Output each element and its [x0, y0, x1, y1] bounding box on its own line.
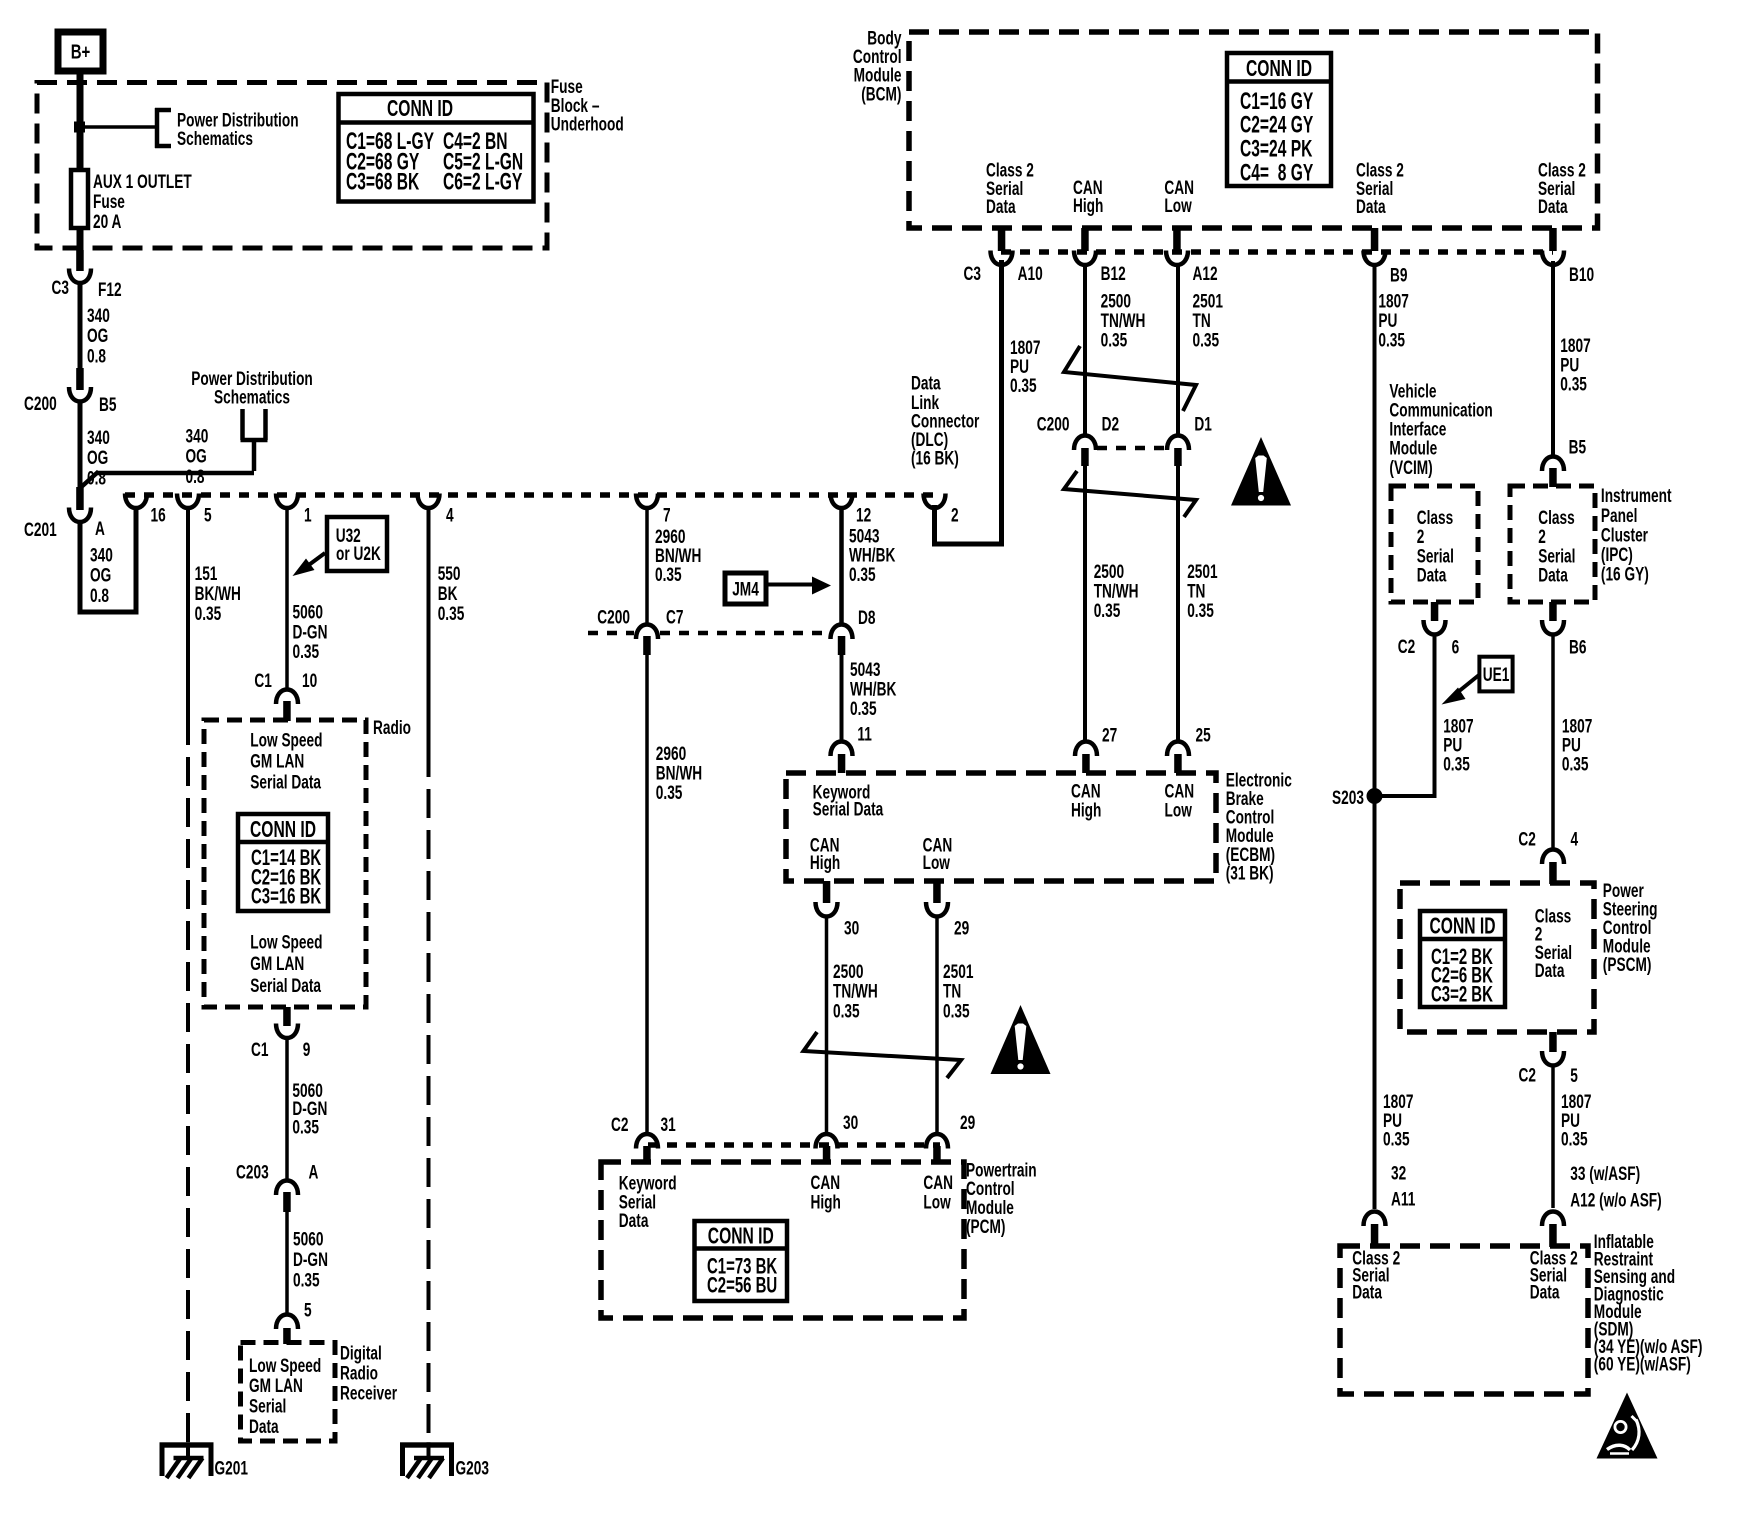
svg-text:Radio: Radio	[340, 1362, 378, 1384]
svg-text:Low: Low	[923, 1191, 950, 1213]
svg-text:5060: 5060	[293, 1228, 323, 1250]
svg-text:B+: B+	[71, 41, 91, 64]
svg-text:0.35: 0.35	[1187, 600, 1214, 622]
svg-text:30: 30	[843, 1112, 858, 1134]
svg-text:BN/WH: BN/WH	[656, 762, 702, 784]
svg-text:Receiver: Receiver	[340, 1382, 397, 1404]
wire 1807 PU (DLC 2 to BCM A10)	[935, 260, 1041, 544]
svg-text:Serial Data: Serial Data	[250, 771, 321, 793]
svg-text:Data: Data	[1356, 196, 1386, 218]
svg-text:A12 (w/o ASF): A12 (w/o ASF)	[1570, 1189, 1661, 1211]
DLC pin 2 connector	[924, 494, 959, 526]
BCM pin A12 connector	[1166, 228, 1218, 284]
wire 2500 TN/WH (B12 to D2)	[1085, 264, 1145, 436]
IPC bottom pin connector	[1542, 602, 1586, 658]
label Electronic Brake Control Module (ECBM) (31 BK)	[1226, 769, 1292, 884]
svg-text:C3: C3	[964, 263, 981, 285]
svg-text:0.35: 0.35	[438, 603, 465, 625]
svg-text:31: 31	[661, 1114, 676, 1136]
svg-text:C2: C2	[1519, 1064, 1536, 1086]
wire 550 BK (DLC 4 to G203)	[429, 506, 465, 748]
svg-text:Data: Data	[986, 196, 1016, 218]
svg-text:0.35: 0.35	[850, 698, 877, 720]
IPC dashed box	[1510, 486, 1595, 602]
svg-text:Serial Data: Serial Data	[813, 798, 884, 820]
svg-text:2960: 2960	[656, 743, 686, 765]
svg-text:C200: C200	[24, 393, 57, 415]
ECBM pin 29 connector (bottom)	[926, 881, 969, 939]
radio internal label Low Speed GM LAN Serial Data (bottom)	[250, 931, 322, 996]
svg-text:25: 25	[1196, 724, 1211, 746]
wire 2501 TN (D1 to ECBM 25)	[1178, 466, 1218, 742]
svg-text:C3=24 PK: C3=24 PK	[1240, 136, 1313, 162]
svg-text:D2: D2	[1102, 413, 1119, 435]
svg-text:2500: 2500	[833, 961, 863, 983]
svg-text:Radio: Radio	[373, 717, 411, 739]
wire 550 BK dashed segment to G203	[427, 748, 431, 1443]
C200 dashed connector line at D2/D1	[1097, 446, 1165, 451]
SDM internal label Class 2 Serial Data (right)	[1530, 1247, 1578, 1303]
PCM pin 29 connector	[926, 1112, 975, 1164]
ECBM internal label CAN High (pin 30)	[810, 834, 840, 874]
svg-text:4: 4	[1571, 828, 1579, 850]
ECBM internal label Keyword Serial Data	[813, 781, 884, 820]
svg-text:0.35: 0.35	[1561, 1128, 1588, 1150]
svg-text:or U2K: or U2K	[336, 543, 381, 565]
wire 2501 TN (A12 to D1)	[1178, 264, 1223, 436]
svg-text:C6=2 L-GY: C6=2 L-GY	[443, 169, 523, 195]
connector C200 pin D8	[831, 607, 876, 655]
svg-text:4: 4	[446, 504, 454, 526]
wire 2960 BN/WH (C7 to PCM 31)	[647, 655, 702, 1135]
CONN ID table (fuse block)	[339, 94, 534, 202]
svg-text:340: 340	[186, 425, 209, 447]
ground G203	[400, 1442, 489, 1479]
svg-text:0.35: 0.35	[849, 564, 876, 586]
wire 5043 WH/BK (DLC 12 to C200 D8)	[842, 507, 896, 625]
svg-text:6: 6	[1452, 636, 1460, 658]
svg-text:0.35: 0.35	[1443, 753, 1470, 775]
CONN ID table (PCM)	[695, 1221, 788, 1301]
connector C3 pin F12	[52, 250, 122, 300]
svg-text:Data: Data	[1352, 1281, 1382, 1303]
label Vehicle Communication Interface Module (VCIM)	[1389, 380, 1492, 478]
svg-text:Data: Data	[1538, 564, 1568, 586]
svg-text:9: 9	[303, 1039, 311, 1061]
splice S203	[1332, 787, 1382, 809]
svg-text:A12: A12	[1193, 263, 1218, 285]
svg-text:GM LAN: GM LAN	[249, 1375, 303, 1397]
svg-text:0.35: 0.35	[1101, 329, 1128, 351]
svg-text:C3=68 BK: C3=68 BK	[346, 169, 420, 195]
SDM pin 33/A12 connector	[1542, 1212, 1564, 1248]
label Digital Radio Receiver	[340, 1342, 397, 1404]
svg-text:B9: B9	[1390, 264, 1407, 286]
svg-text:Data: Data	[1417, 564, 1447, 586]
wire 340 OG 0.8 (bracket to C201)	[79, 425, 254, 489]
wire 2500 TN/WH (D2 to ECBM 27)	[1085, 466, 1139, 742]
svg-text:D8: D8	[858, 607, 875, 629]
svg-text:OG: OG	[186, 445, 207, 467]
svg-text:0.35: 0.35	[293, 1269, 320, 1291]
svg-text:CONN ID: CONN ID	[250, 817, 316, 843]
svg-text:CONN ID: CONN ID	[387, 96, 453, 122]
Radio module dashed box	[204, 717, 411, 1007]
svg-text:7: 7	[663, 504, 671, 526]
svg-text:G203: G203	[456, 1457, 489, 1479]
svg-text:D1: D1	[1194, 413, 1211, 435]
svg-text:29: 29	[960, 1112, 975, 1134]
PCM harness dotted line	[648, 1142, 940, 1148]
BCM pin B10 connector	[1542, 228, 1594, 285]
wire 340 OG 0.8 (C3 to C200)	[80, 282, 110, 370]
ECBM internal label CAN Low (pin 29)	[923, 834, 953, 874]
svg-text:C3: C3	[52, 277, 69, 299]
off-page bracket 2 Power Distribution Schematics	[191, 368, 313, 440]
svg-text:OG: OG	[90, 564, 111, 586]
warning triangle (CAN bus note)	[1231, 437, 1291, 506]
svg-text:A10: A10	[1018, 263, 1043, 285]
svg-text:0.35: 0.35	[1562, 753, 1589, 775]
Inflatable Restraint SDM dashed box	[1340, 1246, 1588, 1394]
svg-text:32: 32	[1391, 1162, 1406, 1184]
svg-text:Low Speed: Low Speed	[249, 1355, 321, 1377]
svg-text:BK: BK	[438, 583, 458, 605]
svg-text:27: 27	[1102, 724, 1117, 746]
svg-text:Schematics: Schematics	[214, 386, 290, 408]
svg-text:5: 5	[1570, 1065, 1578, 1087]
svg-text:CONN ID: CONN ID	[708, 1223, 774, 1249]
BCM pin label Class 2 Serial Data (B9)	[1356, 159, 1404, 217]
svg-text:0.35: 0.35	[1378, 329, 1405, 351]
svg-text:0.8: 0.8	[186, 466, 205, 488]
BCM pin label CAN High	[1073, 177, 1103, 217]
svg-text:0.35: 0.35	[833, 1000, 860, 1022]
svg-text:0.35: 0.35	[656, 782, 683, 804]
PCM internal label Keyword Serial Data	[619, 1172, 677, 1231]
wire 5060 D-GN (C203 to digital radio receiver)	[287, 1211, 328, 1321]
svg-text:B10: B10	[1569, 264, 1594, 286]
svg-text:30: 30	[844, 917, 859, 939]
connector C200 pin B5	[24, 368, 116, 415]
svg-text:UE1: UE1	[1483, 664, 1510, 686]
svg-text:A: A	[95, 518, 105, 540]
svg-text:0.35: 0.35	[1383, 1128, 1410, 1150]
wire 5060 D-GN (radio to C203)	[287, 1037, 327, 1180]
svg-text:High: High	[810, 852, 840, 874]
connector C203 pin A	[236, 1161, 318, 1212]
CONN ID table (radio)	[238, 814, 328, 911]
DLC pin 16 connector	[125, 494, 166, 526]
wire 2501 TN (ECBM 29 to PCM 29)	[937, 915, 973, 1134]
PSCM pin C2 4 connector	[1542, 850, 1564, 885]
wire 1807 PU (VCIM C2-6 to S203)	[1380, 633, 1474, 796]
svg-text:Data: Data	[1538, 196, 1568, 218]
BCM harness dotted line	[1001, 249, 1553, 255]
svg-text:S203: S203	[1332, 787, 1364, 809]
svg-text:0.35: 0.35	[655, 564, 682, 586]
junction dot on B+ feed	[74, 122, 85, 133]
label Powertrain Control Module (PCM)	[966, 1159, 1037, 1237]
BCM pin label Class 2 Serial Data (A10)	[986, 159, 1034, 217]
svg-text:High: High	[811, 1191, 841, 1213]
wire 2960 BN/WH (DLC 7 to C200 C7)	[647, 507, 701, 625]
svg-text:Low: Low	[1165, 799, 1192, 821]
svg-text:CONN ID: CONN ID	[1246, 56, 1312, 82]
svg-text:0.35: 0.35	[1010, 375, 1037, 397]
svg-text:Low Speed: Low Speed	[250, 931, 322, 953]
ECBM pin 25 connector	[1167, 724, 1211, 773]
svg-text:5060: 5060	[293, 601, 323, 623]
svg-text:A: A	[309, 1161, 319, 1183]
IPC pin B5 connector	[1542, 457, 1564, 488]
wire label 1807 PU (B9 wire at SDM)	[1383, 1091, 1415, 1210]
svg-text:Serial Data: Serial Data	[250, 975, 321, 997]
svg-text:Digital: Digital	[340, 1342, 382, 1364]
svg-text:29: 29	[954, 917, 969, 939]
digital radio receiver connector pin 5	[276, 1315, 298, 1345]
svg-text:550: 550	[438, 563, 461, 585]
wire 1807 PU (IPC to PSCM C2-4)	[1518, 633, 1592, 850]
DLC pin 5 connector	[177, 494, 212, 526]
svg-text:Data: Data	[619, 1210, 649, 1232]
wire 1807 PU (PSCM to SDM)	[1553, 1064, 1662, 1211]
PCM internal label CAN High	[811, 1172, 841, 1213]
PSCM pin C2 5 connector (bottom)	[1519, 1032, 1578, 1086]
warning triangle (CAN bus note 2)	[991, 1005, 1051, 1074]
fuse block dashed box (Fuse Block - Underhood)	[37, 83, 547, 249]
svg-text:Data: Data	[1535, 960, 1565, 982]
svg-text:Low: Low	[1164, 195, 1191, 217]
svg-text:C7: C7	[666, 606, 683, 628]
svg-text:F12: F12	[98, 279, 122, 301]
svg-text:0.35: 0.35	[292, 1116, 319, 1138]
svg-text:0.35: 0.35	[1094, 600, 1121, 622]
svg-text:C2: C2	[1398, 636, 1415, 658]
ECBM internal label CAN Low (pin 25)	[1165, 780, 1195, 821]
svg-text:Serial: Serial	[249, 1395, 286, 1417]
twisted pair crossover 1	[1064, 346, 1196, 411]
wire B+ feed into fuse block	[77, 71, 84, 250]
wire 340 OG 0.8 (C200 to C201)	[80, 400, 110, 491]
svg-text:C200: C200	[597, 606, 630, 628]
svg-text:Schematics: Schematics	[177, 128, 253, 150]
svg-text:2: 2	[951, 504, 959, 526]
svg-text:0.35: 0.35	[1193, 329, 1220, 351]
svg-text:C203: C203	[236, 1161, 269, 1183]
wire 340 OG 0.8 (C201 to DLC pin 16)	[80, 508, 136, 612]
Body Control Module dashed box	[909, 32, 1598, 228]
wire 1807 PU (BCM B9 to SDM A11)	[1375, 264, 1409, 1209]
svg-text:JM4: JM4	[732, 578, 759, 600]
label Data Link Connector (DLC) (16 BK)	[911, 372, 980, 469]
BCM pin B12 connector	[1074, 228, 1126, 284]
twisted pair crossover 2	[1064, 471, 1196, 517]
svg-text:High: High	[1071, 799, 1101, 821]
connector C200 pin D2	[1037, 413, 1119, 466]
svg-text:OG: OG	[87, 447, 108, 469]
svg-text:151: 151	[195, 563, 218, 585]
svg-text:GM LAN: GM LAN	[250, 953, 304, 975]
svg-text:(VCIM): (VCIM)	[1389, 457, 1432, 479]
svg-text:Fuse: Fuse	[93, 191, 125, 213]
svg-text:B12: B12	[1101, 263, 1126, 285]
svg-text:Data: Data	[911, 372, 941, 394]
ECBM internal label CAN High (pin 27)	[1071, 780, 1101, 821]
ECBM pin 30 connector (bottom)	[816, 881, 860, 939]
VCIM pin C2 6 connector	[1398, 602, 1460, 658]
PCM pin 30 connector	[816, 1112, 859, 1164]
svg-text:0.35: 0.35	[1560, 373, 1587, 395]
SDM internal label Class 2 Serial Data (left)	[1352, 1247, 1400, 1303]
connector C201 pin A	[24, 487, 105, 540]
svg-text:B6: B6	[1569, 636, 1586, 658]
Power Steering Control Module dashed box	[1400, 883, 1594, 1032]
svg-text:TN/WH: TN/WH	[833, 980, 878, 1002]
svg-text:1: 1	[304, 504, 312, 526]
svg-text:0.35: 0.35	[293, 641, 320, 663]
svg-text:Underhood: Underhood	[551, 113, 624, 135]
wire 151 BK/WH dashed segment to G201	[186, 716, 190, 1443]
SRS warning triangle	[1597, 1393, 1658, 1459]
svg-text:D-GN: D-GN	[293, 1249, 328, 1271]
svg-text:(60 YE)(w/ASF): (60 YE)(w/ASF)	[1594, 1353, 1691, 1375]
BCM pin A10 (C3) connector	[964, 228, 1043, 284]
VCIM internal label Class 2 Serial Data	[1417, 507, 1454, 586]
svg-text:C1: C1	[251, 1039, 268, 1061]
wire 5043 WH/BK (D8 to ECBM 11)	[842, 652, 897, 745]
svg-text:D-GN: D-GN	[293, 621, 328, 643]
svg-text:Data: Data	[1530, 1281, 1560, 1303]
svg-text:(BCM): (BCM)	[861, 83, 901, 105]
off-page bracket Power Distribution Schematics	[155, 108, 299, 149]
svg-text:(16 GY): (16 GY)	[1601, 563, 1649, 585]
callout box U32 or U2K with arrow	[293, 517, 388, 576]
label Power Steering Control Module (PSCM)	[1603, 880, 1658, 976]
BCM pin B9 connector	[1364, 228, 1408, 286]
DLC harness dotted line	[125, 492, 941, 498]
ECBM pin 11 connector	[831, 742, 853, 774]
PCM pin 31 connector (C2)	[611, 1114, 676, 1164]
svg-text:340: 340	[87, 427, 110, 449]
DLC pin 7 connector	[636, 494, 671, 526]
svg-text:High: High	[1073, 195, 1103, 217]
callout box JM4 with arrow	[725, 573, 831, 604]
CONN ID table (PSCM)	[1420, 911, 1505, 1007]
svg-text:0.35: 0.35	[195, 603, 222, 625]
svg-text:5: 5	[304, 1299, 312, 1321]
DLC pin 4 connector	[418, 494, 455, 526]
VCIM dashed box	[1391, 486, 1478, 602]
C200 dashed connector line at C7/D8	[588, 631, 829, 636]
svg-text:340: 340	[87, 305, 110, 327]
svg-text:C4= 8 GY: C4= 8 GY	[1240, 160, 1314, 186]
svg-text:Data: Data	[249, 1416, 279, 1438]
SDM pin A11 connector	[1364, 1212, 1386, 1248]
svg-text:0.8: 0.8	[87, 345, 106, 367]
svg-text:0.35: 0.35	[943, 1000, 970, 1022]
svg-text:2501: 2501	[943, 961, 973, 983]
svg-text:12: 12	[856, 504, 871, 526]
svg-text:(PCM): (PCM)	[966, 1216, 1005, 1238]
svg-text:C1: C1	[254, 670, 271, 692]
DLC pin 1 connector	[276, 494, 312, 526]
svg-text:C2: C2	[1518, 828, 1535, 850]
svg-text:GM LAN: GM LAN	[250, 750, 304, 772]
svg-text:AUX 1 OUTLET: AUX 1 OUTLET	[93, 171, 192, 193]
svg-text:C201: C201	[24, 519, 57, 541]
IPC internal label Class 2 Serial Data	[1538, 507, 1575, 586]
svg-text:A11: A11	[1391, 1188, 1415, 1210]
wire 151 BK/WH (DLC 5 to G201)	[188, 506, 241, 716]
svg-text:OG: OG	[87, 325, 108, 347]
connector C200 pin C7	[597, 606, 683, 655]
radio internal label Low Speed GM LAN Serial Data (top)	[250, 729, 322, 793]
CONN ID table (BCM)	[1227, 53, 1331, 186]
svg-text:(16 BK): (16 BK)	[911, 447, 959, 469]
wire 2500 TN/WH (ECBM 30 to PCM 30)	[827, 915, 878, 1134]
wire 1807 PU (BCM B10 to IPC B5)	[1553, 261, 1591, 458]
ECBM pin 27 connector	[1075, 724, 1117, 773]
BCM pin label Class 2 Serial Data (B10)	[1538, 159, 1586, 217]
connector C200 pin D1	[1167, 413, 1212, 466]
svg-text:Low Speed: Low Speed	[250, 729, 322, 751]
svg-text:B5: B5	[99, 394, 116, 416]
label Fuse Block - Underhood	[551, 76, 624, 136]
DLC pin 12 connector	[831, 494, 872, 526]
label Inflatable Restraint Sensing and Diagnostic Module (SDM)	[1594, 1231, 1703, 1375]
svg-text:16: 16	[151, 504, 166, 526]
svg-text:33 (w/ASF): 33 (w/ASF)	[1570, 1163, 1640, 1185]
svg-text:C3=2 BK: C3=2 BK	[1431, 982, 1493, 1007]
PSCM internal label Class 2 Serial Data	[1535, 905, 1572, 981]
callout box UE1 with arrow	[1442, 657, 1513, 705]
label Instrument Panel Cluster (IPC) (16 GY)	[1601, 485, 1672, 585]
svg-text:(PSCM): (PSCM)	[1603, 954, 1652, 976]
svg-text:C1=16 GY: C1=16 GY	[1240, 89, 1314, 115]
Digital Radio Receiver dashed box	[241, 1343, 336, 1442]
svg-text:Low: Low	[923, 852, 950, 874]
radio connector C1 pin 10	[254, 670, 317, 721]
svg-text:20 A: 20 A	[93, 211, 121, 233]
svg-text:0.8: 0.8	[90, 585, 109, 607]
svg-text:TN: TN	[943, 980, 961, 1002]
svg-text:B5: B5	[1569, 436, 1586, 458]
label Body Control Module (BCM)	[853, 27, 902, 105]
battery positive terminal B+	[58, 32, 103, 71]
svg-text:5: 5	[204, 504, 212, 526]
svg-text:C2: C2	[611, 1114, 628, 1136]
BCM pin label CAN Low	[1164, 177, 1194, 217]
svg-text:C200: C200	[1037, 413, 1070, 435]
svg-text:11: 11	[857, 723, 871, 745]
radio bottom connector C1 pin 9	[251, 1007, 310, 1060]
Electronic Brake Control Module dashed box	[786, 773, 1216, 881]
svg-text:G201: G201	[215, 1457, 248, 1479]
svg-text:(31 BK): (31 BK)	[1226, 862, 1274, 884]
fuse AUX 1 OUTLET 20 A	[71, 170, 192, 232]
wire to power distribution bracket	[84, 125, 156, 129]
svg-text:C2=24 GY: C2=24 GY	[1240, 113, 1314, 139]
svg-text:C2=56 BU: C2=56 BU	[707, 1273, 777, 1298]
twisted pair crossover 3	[804, 1032, 962, 1078]
svg-text:10: 10	[302, 670, 317, 692]
ground G201	[160, 1442, 248, 1479]
PCM internal label CAN Low	[923, 1172, 953, 1213]
svg-text:CONN ID: CONN ID	[1429, 913, 1495, 939]
svg-text:Instrument: Instrument	[1601, 485, 1672, 507]
DRR internal label Low Speed GM LAN Serial Data	[249, 1355, 321, 1438]
